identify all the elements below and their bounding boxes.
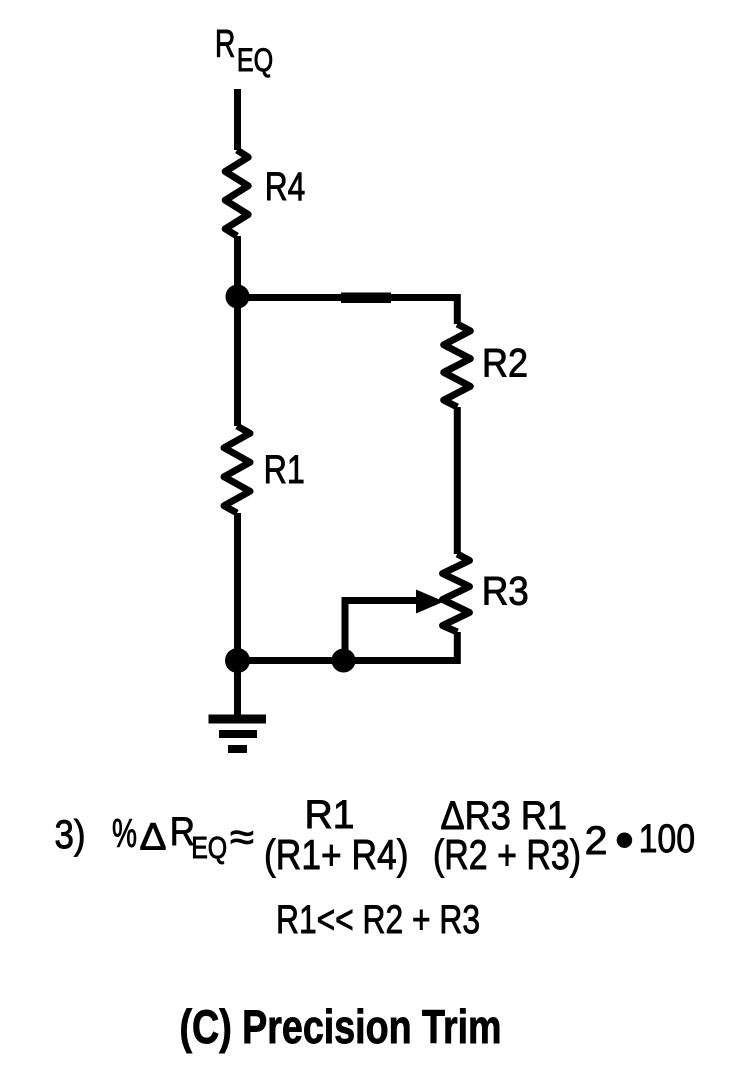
svg-text:R1<< R2 + R3: R1<< R2 + R3 [276, 898, 480, 942]
resistor R3 (potentiometer) [443, 554, 470, 632]
wire R4 to node A [234, 236, 241, 426]
svg-text:R4: R4 [265, 165, 306, 209]
wire from REQ to R4 [234, 89, 241, 150]
svg-text:•: • [615, 810, 634, 870]
wire R1 to ground node [234, 513, 241, 661]
svg-text:Δ: Δ [140, 817, 167, 859]
resistor R1 [224, 426, 250, 513]
svg-text:R1: R1 [264, 448, 305, 492]
resistor R4 [225, 150, 248, 236]
node B junction dot (ground node) [225, 648, 250, 673]
svg-text:R3: R3 [482, 570, 529, 614]
wiper wire [345, 601, 420, 661]
svg-text:(C) Precision Trim: (C) Precision Trim [180, 1000, 502, 1053]
svg-text:R2: R2 [482, 342, 528, 386]
wire R2 to R3 [454, 407, 461, 554]
svg-text:2: 2 [585, 819, 608, 863]
svg-text:%: % [112, 812, 137, 856]
svg-text:100: 100 [639, 817, 696, 861]
svg-text:R: R [215, 23, 236, 66]
svg-text:3): 3) [55, 813, 86, 857]
svg-text:(R1+ R4): (R1+ R4) [264, 831, 409, 878]
node R_EQ label [215, 23, 273, 79]
wiper junction dot [332, 649, 356, 673]
svg-text:EQ: EQ [237, 42, 273, 78]
wire R3 bottom to bottom rail [238, 632, 458, 661]
wire top horizontal node A to R2 branch [238, 298, 458, 325]
wiper arrowhead [416, 590, 444, 614]
wire thick patch artifact [341, 292, 391, 303]
svg-text:(R2 + R3): (R2 + R3) [433, 831, 581, 878]
node A junction dot [226, 285, 250, 309]
svg-text:≈: ≈ [230, 816, 254, 860]
resistor R2 [444, 324, 471, 407]
ground [209, 719, 267, 749]
wire ground stem [234, 661, 241, 720]
svg-text:EQ: EQ [191, 830, 227, 865]
